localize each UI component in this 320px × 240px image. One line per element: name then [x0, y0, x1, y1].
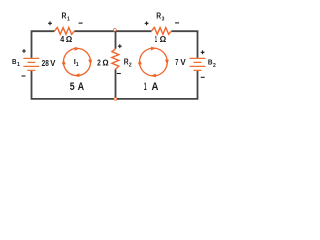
svg-text:5: 5 — [70, 81, 75, 93]
svg-text:1: 1 — [76, 62, 79, 68]
svg-text:2: 2 — [213, 63, 216, 69]
svg-text:Ω: Ω — [102, 57, 109, 67]
svg-text:2: 2 — [97, 57, 101, 67]
svg-text:V: V — [180, 57, 186, 67]
svg-text:1: 1 — [155, 34, 157, 44]
svg-text:Ω: Ω — [160, 34, 167, 44]
svg-text:A: A — [152, 81, 159, 93]
svg-text:28: 28 — [42, 58, 49, 68]
svg-text:2: 2 — [129, 63, 132, 69]
svg-text:4: 4 — [60, 34, 64, 44]
svg-text:V: V — [50, 58, 55, 68]
svg-text:1: 1 — [144, 81, 147, 93]
svg-text:A: A — [78, 81, 85, 93]
svg-text:3: 3 — [162, 17, 165, 23]
svg-text:R: R — [62, 12, 67, 21]
svg-text:1: 1 — [17, 62, 20, 68]
svg-text:7: 7 — [175, 57, 178, 67]
svg-text:Ω: Ω — [66, 34, 73, 44]
svg-text:1: 1 — [67, 17, 70, 23]
